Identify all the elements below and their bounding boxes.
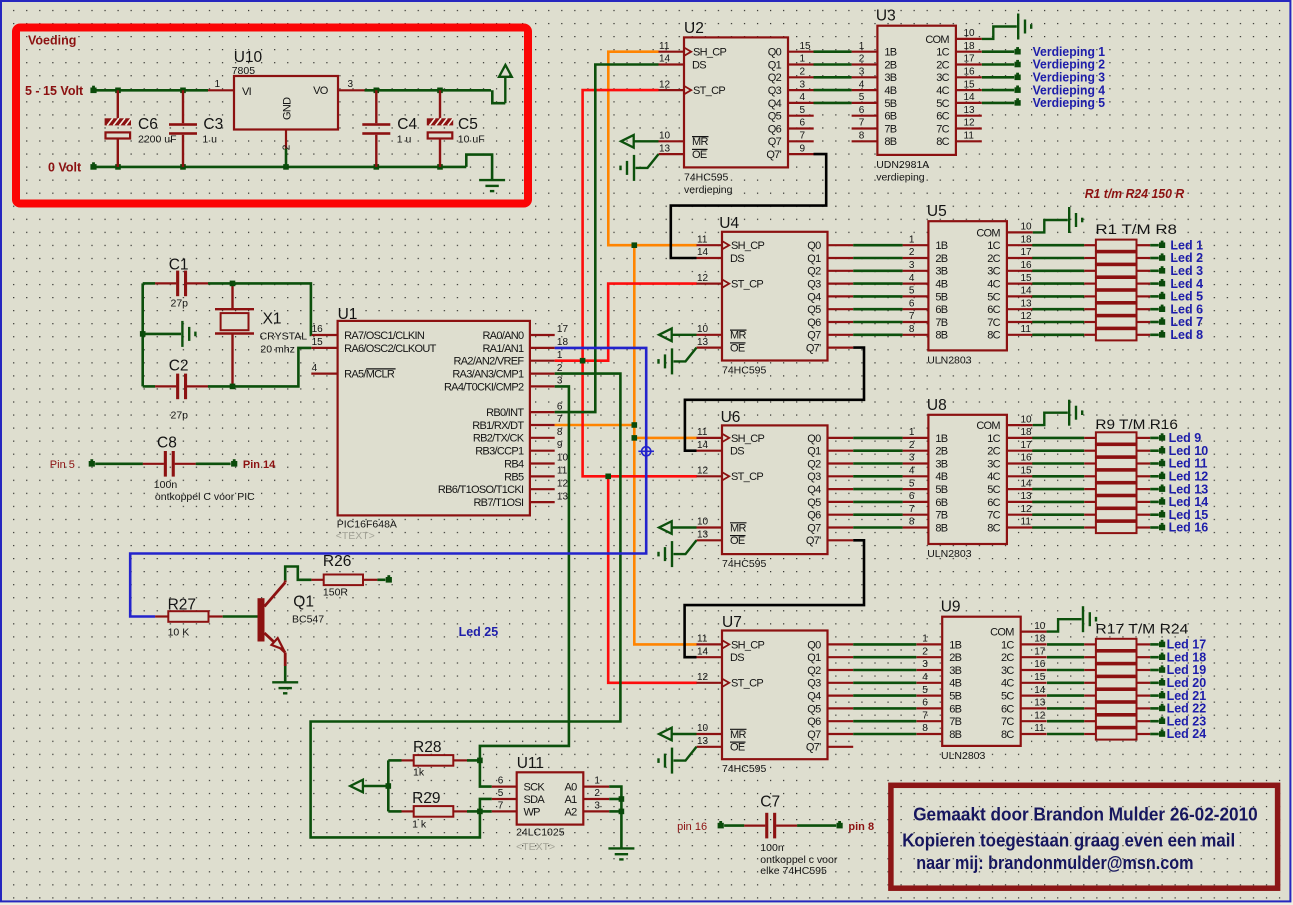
svg-text:Q4: Q4 (768, 98, 782, 110)
svg-text:ULN2803: ULN2803 (927, 548, 972, 560)
svg-text:SDA: SDA (524, 794, 546, 806)
svg-text:U6: U6 (721, 409, 741, 426)
pin 6 of U3 (852, 115, 878, 117)
pin 14 of U2 (659, 63, 685, 65)
pin 3 of U9 (916, 669, 942, 671)
svg-text:Q1: Q1 (807, 446, 821, 458)
svg-text:Q2: Q2 (807, 266, 821, 278)
pin 17 of U5 (1007, 257, 1033, 259)
svg-text:Q5: Q5 (768, 111, 782, 123)
pin 5 of U11 (492, 798, 517, 800)
terminal Led 16 (1159, 525, 1165, 531)
junction red RA2 (580, 358, 586, 364)
svg-text:DS: DS (730, 253, 744, 265)
svg-text:VO: VO (313, 85, 329, 97)
svg-text:Q0: Q0 (768, 47, 782, 59)
pin 2 of U6 (Q2) (828, 462, 854, 464)
svg-text:9: 9 (800, 143, 806, 154)
pin 3 of U8 (903, 462, 929, 464)
svg-text:13: 13 (659, 143, 671, 154)
ground symbol at crystal (rotated right) (181, 321, 183, 347)
power flag arrow at U6.MR (659, 521, 697, 534)
terminal Led 20 (1159, 680, 1165, 686)
pin 12 of U9 (1021, 720, 1047, 722)
pin 6 of U4 (Q6) (828, 321, 854, 323)
svg-text:7C: 7C (987, 510, 1000, 522)
svg-text:X1: X1 (263, 310, 282, 327)
wire R28-R29 left vertical (387, 760, 390, 811)
svg-text:RA7/OSC1/CLKIN: RA7/OSC1/CLKIN (344, 330, 425, 342)
terminal Led 17 (1159, 642, 1165, 648)
ground at U7.OE (659, 747, 697, 774)
pin 4 of U9 (916, 682, 942, 684)
wire orange branch U6.SH_CP (634, 437, 697, 440)
svg-text:11: 11 (1034, 723, 1045, 734)
pin 3 of U2 (Q3) (788, 89, 814, 91)
pin 10 of U4 (697, 334, 723, 336)
wire U6.Q6 to U8.7B (853, 513, 902, 516)
svg-text:RB3/CCP1: RB3/CCP1 (475, 446, 524, 458)
svg-text:5C: 5C (936, 98, 949, 110)
terminal Led 21 (1159, 693, 1165, 699)
pin 4 of U1 (311, 373, 337, 375)
pin 1 of U10 (208, 89, 234, 91)
terminal Led 6 (1159, 306, 1165, 312)
svg-text:7: 7 (909, 311, 915, 322)
svg-text:2B: 2B (949, 652, 961, 664)
svg-text:3: 3 (348, 79, 354, 90)
svg-text:R28: R28 (413, 739, 441, 756)
svg-text:naar mij: brandonmulder@msn.co: naar mij: brandonmulder@msn.com (916, 853, 1193, 873)
svg-text:C2: C2 (169, 358, 189, 375)
svg-text:4C: 4C (987, 279, 1000, 291)
svg-text:Q1: Q1 (807, 652, 821, 664)
junction +V/C3 (180, 88, 186, 94)
wire U11 address pins to ground (609, 787, 621, 849)
pin 8 of U3 (852, 140, 878, 142)
pin 1 of U3 (852, 51, 878, 53)
junction VO/C5 (437, 88, 443, 94)
svg-text:Q0: Q0 (807, 433, 821, 445)
svg-text:4: 4 (922, 672, 928, 683)
svg-text:Q5: Q5 (807, 304, 821, 316)
svg-text:18: 18 (1021, 427, 1033, 438)
svg-text:Q7': Q7' (806, 535, 821, 547)
pin 13 of U3 (956, 115, 982, 117)
resistor R1 (1032, 432, 1159, 443)
pin 3 of U11 (583, 810, 609, 812)
wire U6.Q5 to U8.6B (853, 501, 902, 504)
terminal Led 8 (1159, 332, 1165, 338)
svg-text:2: 2 (909, 247, 915, 258)
svg-text:2B: 2B (884, 59, 896, 71)
svg-text:ULN2803: ULN2803 (927, 354, 972, 366)
pin 3 of U4 (Q3) (828, 283, 854, 285)
pin 15 of U2 (Q0) (788, 51, 814, 53)
svg-text:14: 14 (697, 247, 709, 258)
svg-text:16: 16 (1021, 260, 1033, 271)
svg-text:15: 15 (964, 79, 976, 90)
pin 7 of U9 (916, 720, 942, 722)
svg-text:2: 2 (557, 363, 563, 374)
pin 2 of U7 (Q2) (828, 669, 854, 671)
svg-text:4C: 4C (987, 471, 1000, 483)
svg-text:RB6/T1OSO/T1CKI: RB6/T1OSO/T1CKI (438, 484, 524, 496)
svg-text:18: 18 (557, 337, 569, 348)
ground at U4.OE (659, 348, 697, 375)
junction VO/C4 (374, 88, 380, 94)
resistor R6 (1032, 496, 1159, 507)
pin 18 of U8 (1007, 437, 1033, 439)
svg-text:6: 6 (557, 401, 563, 412)
svg-text:4: 4 (800, 92, 806, 103)
pin 12 of U1 (530, 488, 555, 490)
svg-text:elke 74HC595: elke 74HC595 (760, 865, 827, 877)
wire orange clock net drop (634, 245, 697, 644)
svg-text:5: 5 (859, 92, 865, 103)
svg-text:SH_CP: SH_CP (693, 47, 727, 59)
svg-text:RA0/AN0: RA0/AN0 (482, 330, 524, 342)
svg-text:7C: 7C (936, 123, 949, 135)
wire U4.Q3 to U5.4B (853, 282, 902, 285)
terminal Led 7 (1159, 319, 1165, 325)
svg-text:U5: U5 (927, 203, 947, 220)
pin 17 of U9 (1021, 656, 1047, 658)
pin 4 of U7 (Q4) (828, 694, 854, 696)
svg-text:13: 13 (697, 337, 709, 348)
svg-text:1k: 1k (413, 767, 425, 779)
pin 3 of U3 (852, 76, 878, 78)
svg-text:74HC595: 74HC595 (722, 558, 767, 570)
terminal Led 11 (1159, 461, 1165, 467)
svg-text:13: 13 (964, 105, 976, 116)
svg-text:verdieping: verdieping (876, 172, 925, 184)
svg-text:12: 12 (697, 672, 709, 683)
terminal pin 8 (837, 823, 843, 829)
resistor R8 (1032, 522, 1159, 533)
svg-text:RA4/T0CKI/CMP2: RA4/T0CKI/CMP2 (444, 381, 524, 393)
svg-text:12: 12 (964, 118, 976, 129)
resistor R4 (1032, 471, 1159, 482)
svg-text:1B: 1B (949, 639, 961, 651)
svg-text:8: 8 (922, 723, 928, 734)
svg-text:1 k: 1 k (412, 818, 427, 830)
svg-text:14: 14 (1021, 286, 1033, 297)
svg-text:13: 13 (1021, 298, 1033, 309)
svg-text:1C: 1C (987, 240, 1000, 252)
regulator U10 body (7805) (234, 76, 338, 130)
svg-text:RB4: RB4 (504, 458, 524, 470)
svg-text:Q3: Q3 (768, 85, 782, 97)
wire red latch net U2.ST_CP to U6.ST_CP (583, 90, 697, 476)
svg-text:3: 3 (557, 376, 563, 387)
wire A2 to ground net (609, 810, 621, 813)
pin 16 of U5 (1007, 270, 1033, 272)
pin 9 of U2 (Q7´) (788, 153, 814, 155)
svg-text:2C: 2C (987, 446, 1000, 458)
junction orange at U4 row (632, 242, 638, 248)
svg-text:R9 T/M R16: R9 T/M R16 (1095, 416, 1178, 432)
svg-text:UDN2981A: UDN2981A (876, 159, 929, 171)
pin 14 of U9 (1021, 694, 1047, 696)
svg-text:U3: U3 (876, 8, 896, 25)
svg-text:U1: U1 (338, 306, 358, 323)
svg-text:Q1: Q1 (768, 59, 782, 71)
svg-text:4: 4 (312, 363, 318, 374)
wire cascade U6.Q7' to U7.DS (685, 540, 864, 657)
pin 13 of U5 (1007, 308, 1033, 310)
terminal Led 22 (1159, 706, 1165, 712)
pin 15 of U7 (Q0) (828, 643, 854, 645)
pin 15 of U1 (311, 347, 337, 349)
capacitor C1 (27p) (143, 271, 233, 297)
svg-text:6C: 6C (987, 497, 1000, 509)
resistor R28 (1k) (388, 755, 480, 766)
junction crystal ground (140, 331, 146, 337)
pin 15 of U3 (956, 89, 982, 91)
pin 15 of U5 (1007, 283, 1033, 285)
svg-text:U10: U10 (234, 49, 263, 66)
svg-text:4B: 4B (935, 279, 947, 291)
svg-text:5C: 5C (987, 484, 1000, 496)
svg-text:RB5: RB5 (504, 471, 524, 483)
svg-text:13: 13 (1021, 491, 1033, 502)
svg-text:5B: 5B (935, 484, 947, 496)
svg-text:14: 14 (697, 646, 709, 657)
junction pull-up arrow (386, 783, 392, 789)
svg-text:GND: GND (282, 97, 294, 120)
svg-text:1 u: 1 u (202, 134, 217, 146)
svg-text:C6: C6 (138, 116, 158, 133)
power flag arrow at R28/R29 (350, 780, 388, 793)
svg-text:17: 17 (1021, 247, 1033, 258)
pin 6 of U8 (903, 501, 929, 503)
terminal Verdieping 2 (1015, 62, 1021, 68)
terminal Led 10 (1159, 448, 1165, 454)
pin 7 of U7 (Q7) (828, 733, 854, 735)
resistor R8 (1032, 329, 1159, 340)
svg-text:7: 7 (859, 118, 865, 129)
terminal pin 16 (718, 823, 724, 829)
svg-text:5: 5 (800, 105, 806, 116)
wire U2.Q2 to U3.3B (814, 76, 852, 79)
svg-text:Q4: Q4 (807, 484, 821, 496)
svg-text:8C: 8C (936, 136, 949, 148)
wire U7.Q0 to U9.1B (853, 643, 916, 646)
pin 15 of U9 (1021, 682, 1047, 684)
pin 12 of U8 (1007, 514, 1033, 516)
svg-text:R17 T/M R24: R17 T/M R24 (1095, 621, 1188, 637)
svg-text:3C: 3C (1001, 665, 1014, 677)
wire emitter to ground (284, 666, 287, 682)
svg-text:10 K: 10 K (168, 627, 190, 639)
wire U7.Q7 to U9.8B (853, 733, 916, 736)
pin 3 of U10 (338, 89, 365, 91)
svg-text:C8: C8 (157, 435, 177, 452)
svg-text:11: 11 (659, 41, 670, 52)
resistor R8 (1047, 728, 1159, 739)
ground at U2.OE (621, 154, 659, 181)
junction orange U6 row (632, 435, 638, 441)
svg-text:1C: 1C (936, 47, 949, 59)
svg-text:6: 6 (498, 776, 504, 787)
pin 12 of U7 (697, 682, 723, 684)
shift register U7 body (74HC595) (722, 631, 828, 760)
svg-text:ST_CP: ST_CP (731, 678, 763, 690)
terminal input 0V (90, 164, 96, 170)
pin 6 of U1 (530, 411, 555, 413)
terminal Led 4 (1159, 281, 1165, 287)
svg-text:ULN2803: ULN2803 (941, 750, 986, 762)
pin 16 of U9 (1021, 669, 1047, 671)
junction 0V/C5 (437, 164, 443, 170)
svg-text:COM: COM (976, 420, 1000, 432)
pin 4 of U3 (852, 89, 878, 91)
pin 18 of U1 (530, 347, 555, 349)
svg-text:ST_CP: ST_CP (731, 279, 763, 291)
svg-text:16: 16 (964, 67, 976, 78)
svg-text:COM: COM (925, 34, 949, 46)
pin 1 of U5 (903, 244, 929, 246)
driver U8 body (ULN2803) (928, 415, 1007, 544)
svg-text:1: 1 (594, 776, 600, 787)
terminal Led 13 (1159, 486, 1165, 492)
svg-text:Q2: Q2 (768, 72, 782, 84)
svg-text:COM: COM (976, 227, 1000, 239)
svg-text:16: 16 (1034, 659, 1046, 670)
pin 5 of U7 (Q5) (828, 707, 854, 709)
wire +V rail (97, 89, 209, 92)
wire U2.Q0 to U3.1B (814, 50, 852, 53)
svg-text:10 uF: 10 uF (458, 134, 485, 146)
resistor R5 (1032, 291, 1159, 302)
pin 2 of U10 (285, 130, 287, 149)
shift register U6 body (74HC595) (722, 425, 828, 554)
svg-text:RB2/TX/CK: RB2/TX/CK (473, 433, 525, 445)
svg-text:1B: 1B (935, 240, 947, 252)
wire blue RA1 to transistor base loop (130, 348, 646, 617)
pin 1 of U8 (903, 437, 929, 439)
wire U7.Q6 to U9.7B (853, 720, 916, 723)
svg-text:Q0: Q0 (807, 240, 821, 252)
svg-text:6: 6 (800, 118, 806, 129)
svg-text:7: 7 (557, 414, 563, 425)
wire U6.Q3 to U8.4B (853, 475, 902, 478)
pin 13 of U7 (697, 746, 723, 748)
svg-text:OE: OE (692, 149, 707, 161)
resistor R7 (1032, 509, 1159, 520)
svg-text:Q7': Q7' (766, 149, 781, 161)
svg-text:OE: OE (730, 343, 745, 355)
svg-text:11: 11 (697, 234, 708, 245)
wire 0V rail (97, 166, 467, 169)
pin 3 of U6 (Q3) (828, 475, 854, 477)
junction C1/crystal (230, 281, 236, 287)
svg-text:15: 15 (312, 337, 324, 348)
wire U6.Q0 to U8.1B (853, 437, 902, 440)
svg-text:2: 2 (922, 646, 928, 657)
wire orange RB1 to clock net (555, 424, 635, 427)
wire U6.Q2 to U8.3B (853, 462, 902, 465)
pin 6 of U7 (Q6) (828, 720, 854, 722)
svg-text:BC547: BC547 (292, 614, 324, 626)
svg-text:7805: 7805 (232, 65, 256, 77)
pin 14 of U5 (1007, 295, 1033, 297)
svg-text:10: 10 (697, 324, 709, 335)
svg-text:R1 t/m R24 150 R: R1 t/m R24 150 R (1085, 186, 1185, 201)
svg-text:Q7: Q7 (768, 136, 782, 148)
terminal Verdieping 4 (1015, 87, 1021, 93)
svg-text:100n: 100n (154, 479, 178, 491)
wire to crystal ground (143, 333, 181, 336)
terminal Led 9 (1159, 435, 1165, 441)
shift register U2 body (74HC595) (684, 37, 788, 167)
pin 3 of U7 (Q3) (828, 682, 854, 684)
svg-text:6B: 6B (935, 304, 947, 316)
svg-text:U11: U11 (517, 755, 544, 772)
pin 11 of U9 (1021, 733, 1047, 735)
pin 3 of U5 (903, 270, 929, 272)
pin 17 of U3 (956, 63, 982, 65)
pin 7 of U2 (Q7) (788, 140, 814, 142)
pin 10 of U3 (COM) (956, 38, 982, 40)
wire green RB0 to U2.DS (555, 65, 659, 413)
svg-text:RA3/AN3/CMP1: RA3/AN3/CMP1 (452, 369, 524, 381)
svg-text:7B: 7B (949, 716, 961, 728)
pin 2 of U5 (903, 257, 929, 259)
svg-text:Q6: Q6 (807, 317, 821, 329)
pin 1 of U11 (583, 785, 609, 787)
svg-text:<TEXT>: <TEXT> (336, 530, 375, 542)
wire collector to R26 (285, 567, 311, 581)
svg-text:5B: 5B (935, 291, 947, 303)
junction C2/crystal (230, 384, 236, 390)
resistor R1 (1047, 639, 1159, 650)
svg-text:MR: MR (692, 136, 708, 148)
svg-text:C5: C5 (458, 116, 478, 133)
svg-text:7B: 7B (884, 123, 896, 135)
svg-text:2C: 2C (987, 253, 1000, 265)
svg-text:Q7': Q7' (806, 343, 821, 355)
svg-text:4: 4 (859, 79, 865, 90)
svg-text:OE: OE (730, 742, 745, 754)
svg-text:3B: 3B (949, 665, 961, 677)
power flag arrow (up) (499, 65, 512, 103)
wire U7.Q2 to U9.3B (853, 669, 916, 672)
resistor R2 (1047, 652, 1159, 663)
pin 14 of U8 (1007, 488, 1033, 490)
pin 11 of U8 (1007, 526, 1033, 528)
pin 18 of U9 (1021, 643, 1047, 645)
svg-text:RA6/OSC2/CLKOUT: RA6/OSC2/CLKOUT (344, 343, 437, 355)
resistor R4 (1047, 677, 1159, 688)
svg-text:2200 uF: 2200 uF (138, 134, 177, 146)
svg-text:Q4: Q4 (807, 691, 821, 703)
svg-text:Q0: Q0 (807, 639, 821, 651)
pin 13 of U2 (659, 153, 685, 155)
svg-text:12: 12 (1021, 504, 1033, 515)
pin 14 of U6 (697, 450, 723, 452)
resistor R3 (1047, 664, 1159, 675)
svg-text:18: 18 (964, 41, 976, 52)
svg-text:2: 2 (594, 788, 600, 799)
terminal Led 14 (1159, 499, 1165, 505)
terminal Led 19 (1159, 667, 1165, 673)
svg-text:Q7: Q7 (807, 729, 821, 741)
pin 7 of U3 (852, 127, 878, 129)
svg-text:DS: DS (692, 59, 706, 71)
svg-text:ST_CP: ST_CP (693, 85, 725, 97)
